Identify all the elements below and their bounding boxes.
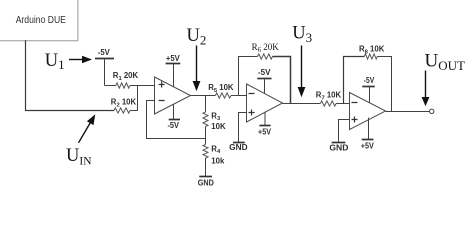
svg-text:U3: U3 <box>292 24 312 46</box>
svg-text:R2 10K: R2 10K <box>111 98 137 109</box>
arrow: U2 pointing to node <box>193 46 201 92</box>
wire: op-amp A2 + input to ground <box>239 113 247 143</box>
wire: op-amp A2 output to R7 <box>283 103 321 105</box>
resistor R7 10K <box>316 91 342 107</box>
arrow: UOUT pointing to output wire <box>422 71 430 107</box>
op-amp A3 (third stage) <box>350 93 386 130</box>
resistor R6 20K <box>252 42 280 59</box>
-5V rail op-amp A3 <box>362 76 374 103</box>
svg-text:R3: R3 <box>211 111 221 122</box>
arrow: U1 pointing to -5V rail <box>69 56 92 63</box>
-5V rail op-amp A2 <box>257 68 271 93</box>
wire: R6 down to op-amp A2 output <box>273 57 291 104</box>
svg-text:+5V: +5V <box>361 142 375 151</box>
Arduino DUE module <box>0 0 78 41</box>
wire: op-amp A1 - input to R3/R4 junction <box>147 101 206 139</box>
resistor R5 10K <box>208 83 234 98</box>
ground GND (A2) <box>229 143 248 152</box>
svg-text:R8 10K: R8 10K <box>359 45 385 56</box>
wire: -5V rail to op-amp A1 + input <box>105 85 155 87</box>
svg-text:R1 20K: R1 20K <box>113 71 139 82</box>
wire: node U2 down to R3 <box>205 96 207 113</box>
resistor R4 10k <box>203 144 225 165</box>
wire: - node up to R8 <box>344 57 365 104</box>
svg-text:-5V: -5V <box>258 68 271 77</box>
resistor R8 10K <box>359 45 385 60</box>
+5V rail op-amp A3 <box>361 118 375 151</box>
svg-text:R5 10K: R5 10K <box>208 83 234 94</box>
svg-text:U2: U2 <box>187 26 207 48</box>
svg-text:UIN: UIN <box>66 146 92 168</box>
resistor R2 10K <box>111 98 137 114</box>
svg-text:10K: 10K <box>211 122 226 131</box>
svg-text:-5V: -5V <box>98 48 111 57</box>
wire: Arduino DUE output down and right to R2 <box>26 40 115 110</box>
wire: R5 to op-amp A2 - input <box>231 95 247 97</box>
svg-text:GND: GND <box>229 143 248 152</box>
svg-text:GND: GND <box>198 179 214 188</box>
svg-text:+5V: +5V <box>258 128 272 137</box>
wire: R3 to R4 junction <box>205 127 207 145</box>
svg-text:R7 10K: R7 10K <box>316 91 342 102</box>
wire: R7 to op-amp A3 - input <box>336 103 349 105</box>
node U2 label <box>187 26 207 48</box>
node UIN label <box>66 146 92 168</box>
ground GND (A3) <box>329 143 348 153</box>
op-amp A1 (first stage) <box>155 77 191 114</box>
svg-text:R4: R4 <box>211 144 221 155</box>
arrow: UIN pointing to wire <box>79 114 96 143</box>
-5V rail op-amp A1 <box>167 104 180 130</box>
wire: op-amp A3 output to terminal <box>386 111 430 113</box>
terminal: UOUT open circle <box>430 109 434 113</box>
+5V rail op-amp A1 <box>166 54 181 87</box>
node U3 label <box>292 24 312 46</box>
+5V rail op-amp A2 <box>258 112 272 137</box>
wire: R4 to ground <box>205 158 207 177</box>
svg-text:UOUT: UOUT <box>425 51 466 73</box>
op-amp A2 (second stage) <box>247 84 283 122</box>
resistor R1 20K <box>113 71 139 88</box>
resistor R3 10K <box>203 111 226 131</box>
svg-text:Arduino DUE: Arduino DUE <box>16 15 66 26</box>
svg-text:R6 20K: R6 20K <box>252 42 280 54</box>
arrow: U3 pointing to node <box>298 46 306 98</box>
-5V supply rail at U1 <box>95 48 114 86</box>
svg-text:GND: GND <box>329 143 348 152</box>
svg-text:10k: 10k <box>211 156 225 165</box>
wire: op-amp A1 output to R5 <box>191 95 216 97</box>
wire: R8 down to op-amp A3 output <box>377 57 391 112</box>
wire: op-amp A3 + input to ground <box>339 120 350 143</box>
svg-text:-5V: -5V <box>364 76 375 85</box>
node U1 label <box>45 51 65 72</box>
wire: - node up to R6 <box>239 57 258 96</box>
ground GND (R4) <box>198 177 214 188</box>
wire: R2 up to + input node <box>130 86 138 111</box>
svg-text:+5V: +5V <box>166 54 180 63</box>
svg-text:-5V: -5V <box>167 121 179 130</box>
svg-text:U1: U1 <box>45 51 65 72</box>
node UOUT label <box>425 51 466 73</box>
